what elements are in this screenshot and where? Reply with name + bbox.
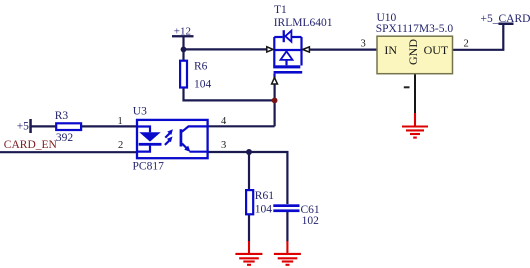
svg-text:OUT: OUT [424,43,449,57]
svg-text:SPX1117M3-5.0: SPX1117M3-5.0 [376,23,454,35]
svg-text:3: 3 [361,38,366,49]
svg-text:392: 392 [56,132,74,144]
svg-text:R6: R6 [194,61,208,73]
svg-text:R3: R3 [55,110,69,122]
svg-text:4: 4 [221,116,227,127]
svg-text:U3: U3 [133,105,147,117]
svg-text:PC817: PC817 [133,161,165,173]
svg-text:T1: T1 [274,4,287,16]
svg-text:+5_CARD: +5_CARD [481,13,530,25]
svg-text:GND: GND [406,39,420,65]
svg-text:+12: +12 [174,26,191,38]
svg-text:R61: R61 [255,190,274,202]
svg-text:IRLML6401: IRLML6401 [274,17,333,29]
svg-text:1: 1 [118,116,123,127]
svg-text:2: 2 [464,39,469,50]
svg-text:3: 3 [221,140,226,151]
svg-text:IN: IN [384,43,397,57]
svg-text:104: 104 [194,79,212,91]
svg-text:102: 102 [302,215,320,227]
svg-text:+5: +5 [17,121,29,133]
svg-text:104: 104 [255,204,272,216]
svg-text:2: 2 [118,140,123,151]
svg-text:CARD_EN: CARD_EN [4,139,58,151]
